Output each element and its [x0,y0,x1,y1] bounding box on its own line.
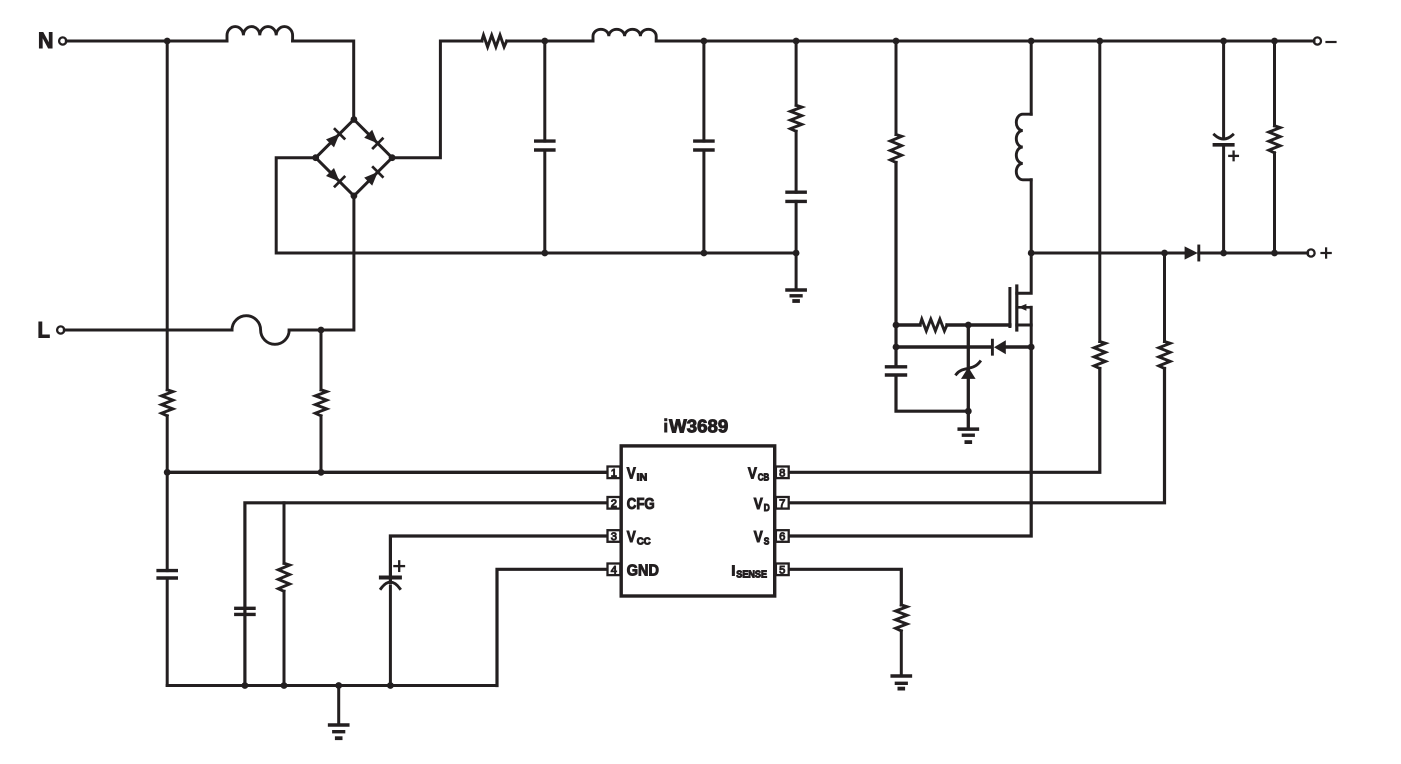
wire plus output row [1031,252,1185,255]
svg-text:GND: GND [627,562,659,579]
inductor L2 [593,29,656,41]
svg-text:CB: CB [758,473,770,484]
node bridge top [351,116,358,123]
resistor R7 gate [920,319,947,331]
wire L3 bottom to drain node [1030,180,1033,253]
wire bus to ground G1 [795,253,798,290]
wire R2 to C3 [795,131,798,192]
zener vertical wire [967,325,970,429]
bridge diode D1b (top to right) [364,130,378,144]
svg-text:D: D [764,503,770,514]
node bus C8 [387,682,394,689]
mosfet Q1 source stub [1017,325,1031,347]
svg-text:SENSE: SENSE [736,570,767,581]
label U1 iW3689 [664,423,667,433]
svg-text:S: S [764,536,770,547]
wire diode D2 to source node [1006,345,1031,348]
node R4 plus row [1271,250,1278,257]
svg-text:1: 1 [611,467,617,479]
wire R7 to gate [947,323,1010,326]
capacitor C7 [236,607,254,610]
wire GND pin row [497,569,606,685]
node source row left [893,344,900,351]
wire R4 top [1273,41,1276,126]
svg-text:CC: CC [637,536,651,547]
node C3 bus [793,250,800,257]
fuse F1 [232,316,289,345]
wire bridge left to bus [276,158,796,253]
node zener bottom [965,408,972,415]
resistor R1 [482,35,507,47]
bridge diode D1a (left to top) [326,134,340,148]
diode D3 output [1185,246,1198,259]
node zener top [965,322,972,329]
wire C9 top [1222,41,1225,139]
node C2 bus [701,250,708,257]
node C2 top rail [701,38,708,45]
ground G3 [330,723,348,727]
svg-text:2: 2 [611,498,617,510]
pin 7 square [776,497,789,509]
capacitor C3 [787,190,805,193]
svg-text:5: 5 [779,564,785,576]
node R4 top rail [1271,38,1278,45]
wire R6 bottom [320,416,323,473]
node R2 top rail [793,38,800,45]
inductor L3 [1016,114,1031,180]
wire bridge right to top rail [392,41,482,158]
node bridge left [312,154,319,161]
wire VD vertical lower [790,369,1165,503]
resistor R9 [1159,342,1170,369]
wire fuse to bridge bottom [289,197,354,330]
capacitor C8 plus plate [381,576,400,580]
ground G4 [892,674,910,678]
pin 5 square [776,564,789,576]
node VD tap [1161,250,1168,257]
capacitor C9 curved plate [1214,135,1232,139]
mosfet Q1 body-source vertical [1030,307,1033,325]
wire bottom bus [167,684,497,687]
wire C9 bottom [1222,147,1225,253]
svg-text:4: 4 [611,564,617,576]
svg-text:8: 8 [779,467,785,479]
wire ISENSE row [790,569,902,605]
wire R3 node down to source row [894,325,897,367]
label plus [1322,252,1331,254]
label minus [1327,41,1336,43]
node C9 top rail [1220,38,1227,45]
pin 2 square [608,497,621,509]
pin 8 square [776,467,789,479]
wire C6 to bus [166,578,169,686]
wire C8 to bus [389,586,392,686]
inductor L1 [227,27,293,41]
svg-text:7: 7 [779,498,785,510]
resistor R5 [162,390,173,416]
wire R3 down to gate row [894,163,897,326]
terminal DC plus [1307,249,1314,256]
capacitor C9 straight plate [1214,143,1232,147]
node on N wire [164,38,171,45]
zener ZD1 triangle [961,367,976,379]
svg-text:I: I [731,563,735,579]
node C1 top rail [541,38,548,45]
node gate row left [893,322,900,329]
svg-text:V: V [627,465,637,482]
wire N to EMI inductor [66,40,227,43]
resistor R6 [315,390,326,416]
wire R5 lower segment [166,416,169,571]
node L3 top rail [1028,38,1035,45]
label C9 plus [1229,155,1238,157]
mosfet Q1 gate bar [1008,289,1011,327]
wire N junction down the left side [166,41,169,390]
wire R11 to ground [900,631,903,676]
wire R6 top [320,330,323,390]
bridge rectifier BR1 edges [316,120,354,158]
wire VIN row [167,471,606,474]
zener ZD1 bar [956,362,980,375]
capacitor C6 [158,569,176,572]
wire VCB vertical lower [790,369,1100,473]
wire R2 top [795,41,798,105]
wire R3 node to R7 [896,323,920,326]
svg-text:3: 3 [611,531,617,543]
bridge diode D1d (bottom to right) [364,172,378,186]
ground G2 [959,427,977,431]
node drain junction [1028,250,1035,257]
ic U1 body [621,446,775,596]
mosfet Q1 channel bar [1015,286,1018,330]
pin 6 square [776,530,789,542]
resistor R10 [278,563,289,591]
terminal N [59,37,66,44]
pin 3 square [608,530,621,542]
mosfet Q1 body arrow [1017,306,1031,309]
capacitor C8 curved plate [381,582,400,589]
svg-text:L: L [38,317,51,342]
wire R10 bottom [283,591,286,685]
mosfet Q1 drain stub [1017,253,1031,293]
resistor R11 [896,605,907,631]
wire bus to ground G3 [337,686,340,725]
wire VCB vertical upper [1098,41,1101,342]
node bridge right [389,154,396,161]
svg-text:V: V [754,529,764,546]
terminal L [57,326,64,333]
svg-text:IN: IN [637,473,648,484]
wire CFG row [245,503,606,686]
bridge diode D1c (left to bottom) [326,168,340,182]
node bridge bottom [351,193,358,200]
wire R3 top [895,41,898,135]
wire C2 bottom [702,150,705,253]
svg-text:CFG: CFG [627,496,655,513]
svg-text:N: N [38,28,54,53]
capacitor C1 [536,139,554,142]
capacitor C4 snubber [887,365,906,368]
wire C1 bottom [543,150,546,253]
label C8 plus [394,565,404,567]
wire C3 to bus [795,201,798,253]
node source junction [1028,344,1035,351]
resistor R2 [790,105,801,131]
wire VD vertical upper [1163,253,1166,342]
pin 1 square [608,467,621,479]
resistor R8 [1094,342,1105,369]
wire R4 bottom [1273,153,1276,253]
capacitor C2 [695,139,713,142]
wire L to fuse [64,329,232,332]
node R3 top rail [893,38,900,45]
node bus ground tap [335,682,342,689]
wire C4 to corner [896,375,966,411]
wire inductor to bridge corner [293,41,354,121]
wire source row left segment [896,345,991,348]
svg-text:V: V [748,465,758,482]
ground G1 [787,288,805,292]
wire VCC row [390,536,606,583]
terminal DC minus [1314,37,1321,44]
wire L3 top [1030,41,1033,114]
node C1 bus [541,250,548,257]
node bus R10 [281,682,288,689]
wire VS vertical [790,347,1032,536]
wire C2 top [702,41,705,141]
node VIN R6 tap [318,469,325,476]
node C9 plus row [1220,250,1227,257]
svg-text:V: V [627,529,637,546]
pin 4 square [608,564,621,576]
svg-text:6: 6 [779,531,785,543]
node bus C7 [242,682,249,689]
wire top rail to minus terminal [656,40,1314,43]
svg-text:W3689: W3689 [669,417,728,437]
wire diode to plus terminal [1199,252,1308,255]
wire resistor to filter inductor [507,40,593,43]
diode D2 snubber [991,340,994,354]
wire C1 top [543,41,546,141]
wire R10 vertical [283,503,286,564]
node L-line junction [318,327,325,334]
svg-text:V: V [754,496,764,513]
node VCB top rail [1096,38,1103,45]
resistor R3 [890,135,901,163]
resistor R4 [1269,126,1280,153]
node VIN left [164,469,171,476]
